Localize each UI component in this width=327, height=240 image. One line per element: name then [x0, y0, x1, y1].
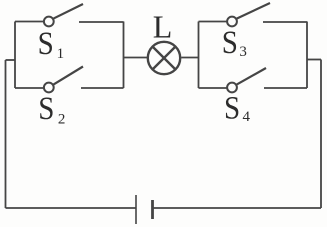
wire: bottom wire left of battery — [6, 207, 137, 209]
wire: right bottom branch right segment from S4 — [264, 87, 307, 89]
svg-text:1: 1 — [57, 46, 65, 62]
wire: outer-right vertical down to bottom — [320, 60, 322, 209]
lamp L cross stroke 2 — [153, 47, 176, 70]
svg-text:2: 2 — [58, 111, 66, 127]
wire: outer-left vertical down to bottom — [5, 60, 7, 208]
wire: right top branch left segment to S3 — [199, 21, 228, 23]
switch S4 pivot circle — [227, 83, 237, 93]
label S4 — [224, 89, 240, 126]
battery negative plate (short) — [151, 200, 154, 219]
lamp L envelope circle — [148, 42, 180, 74]
label S1 — [38, 24, 54, 61]
switch S2 lever arm — [53, 67, 83, 85]
lamp L cross stroke 1 — [153, 47, 176, 70]
wire: left connector from outer vertical — [6, 59, 16, 61]
wire: top branch left segment to S1 — [15, 21, 44, 23]
wire: right block inner-left vertical — [198, 22, 200, 89]
switch S3 pivot circle — [227, 17, 237, 27]
wire: top branch right segment from S1 to inner-right vertical — [79, 21, 124, 23]
wire: left block inner-left vertical — [14, 22, 16, 89]
switch S1 lever arm — [53, 4, 83, 19]
switch S3 lever arm — [236, 3, 270, 19]
switch S2 pivot circle — [44, 83, 54, 93]
wire: bottom branch left segment to S2 — [15, 87, 44, 89]
wire: lamp to right block — [181, 57, 198, 59]
wire: right block inner-right vertical — [306, 22, 308, 89]
wire: middle wire from left block to lamp — [124, 57, 148, 59]
label S2 — [38, 89, 54, 126]
svg-text:L: L — [153, 8, 173, 44]
svg-text:S: S — [224, 89, 240, 126]
svg-text:4: 4 — [243, 109, 251, 125]
wire: left block inner-right vertical — [123, 22, 125, 89]
wire: bottom branch right segment from S2 to inner-right vertical — [81, 87, 124, 89]
wire: right top branch right segment from S3 — [263, 21, 307, 23]
svg-text:S: S — [222, 23, 238, 60]
switch S1 pivot circle — [44, 17, 54, 27]
wire: bottom wire right of battery — [153, 207, 322, 209]
switch S4 lever arm — [236, 68, 266, 85]
wire: right connector to outer vertical — [307, 59, 321, 61]
label S3 — [222, 23, 238, 60]
svg-text:3: 3 — [239, 44, 247, 60]
battery positive plate (long) — [135, 195, 137, 224]
svg-text:S: S — [38, 89, 54, 126]
wire: right bottom branch left segment to S4 — [199, 87, 228, 89]
svg-text:S: S — [38, 24, 54, 61]
